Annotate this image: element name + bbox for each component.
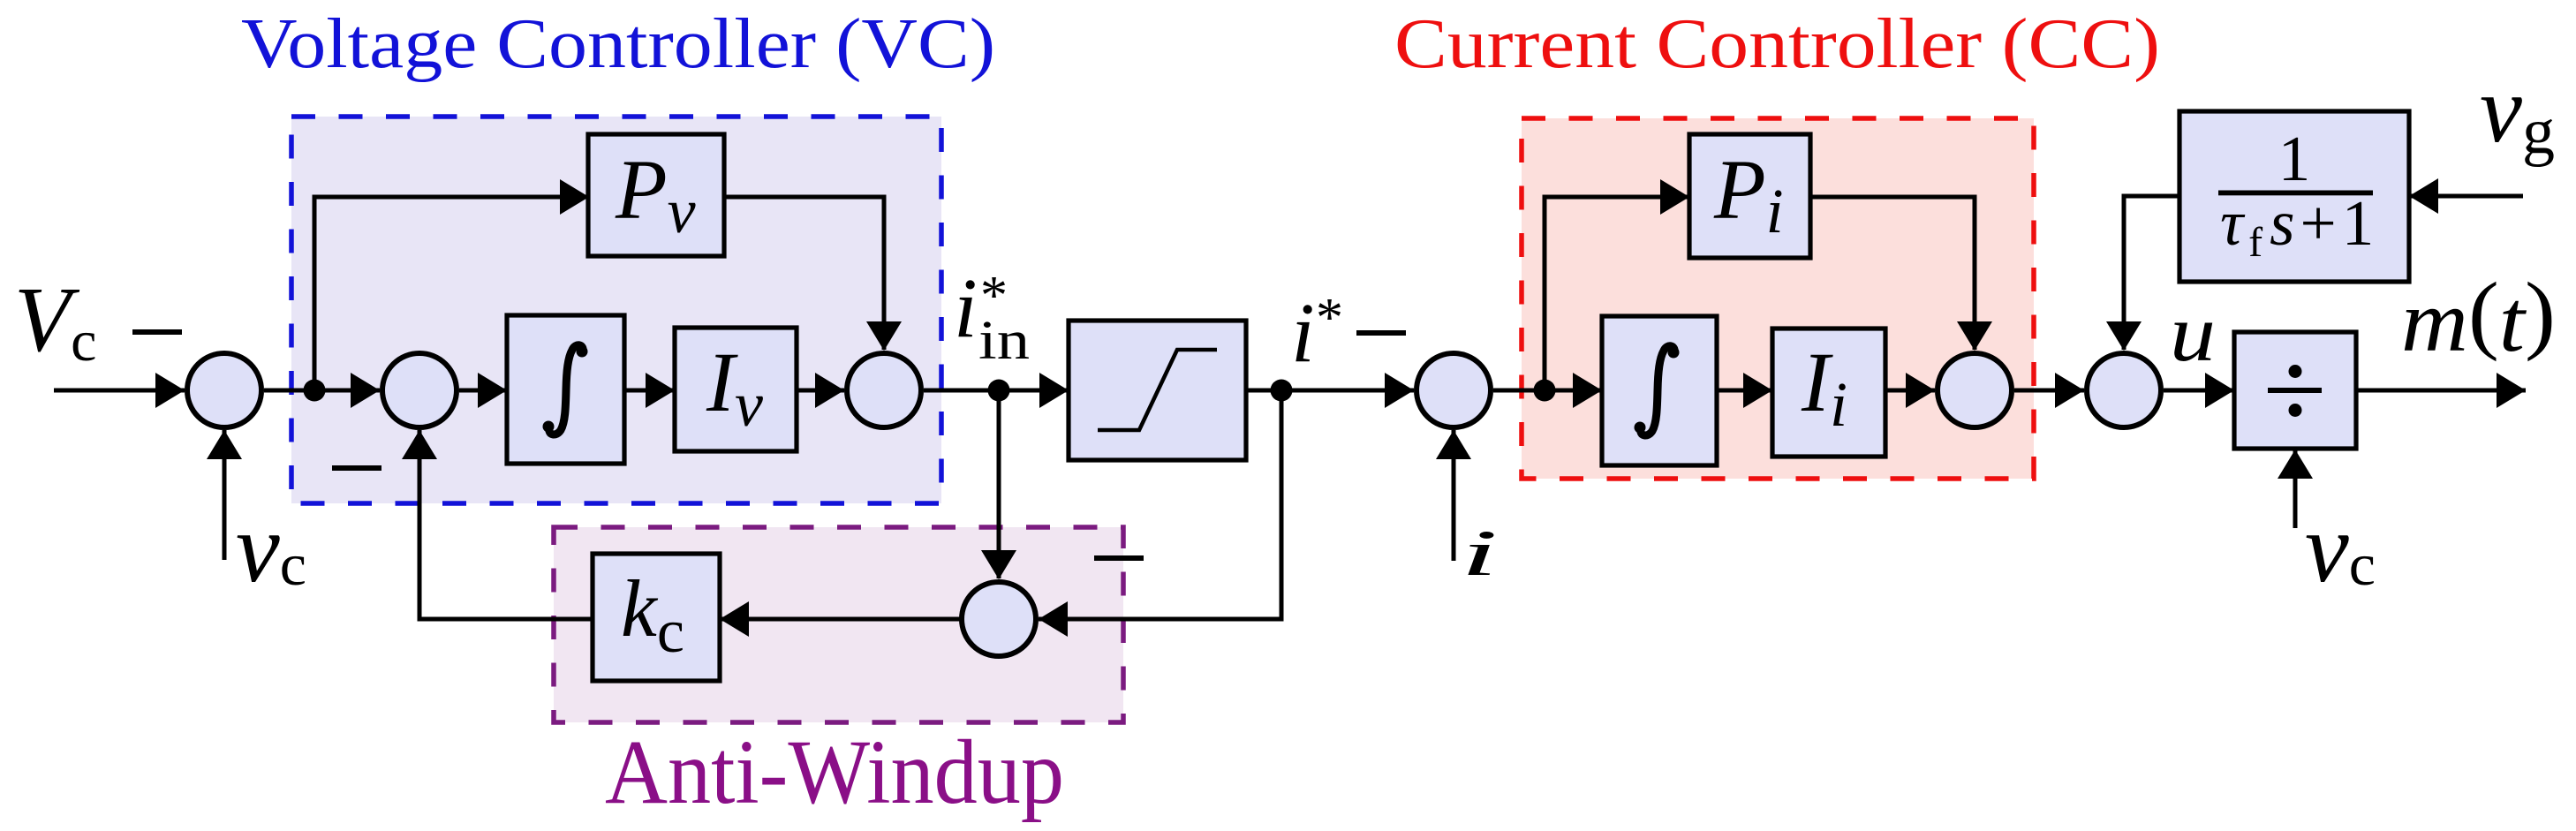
- arrowhead output m(t): [2497, 373, 2526, 408]
- wire: Iv to sum S3: [797, 389, 844, 393]
- sum circle S4 (i* - i): [1416, 353, 1491, 427]
- label integral CC (drawn path): [1641, 346, 1674, 435]
- arrowhead into saturation: [1039, 373, 1069, 408]
- svg-text:Voltage Controller (VC): Voltage Controller (VC): [241, 5, 995, 83]
- wire: node i*in down into anti-windup sum SA: [997, 390, 1001, 578]
- divide symbol bar: [2268, 388, 2322, 393]
- block Iv: [675, 328, 797, 451]
- label integral VC (drawn path): [549, 345, 583, 434]
- region box: Voltage Controller (VC) dashed blue: [291, 117, 941, 503]
- wire: S4 to CC integrator through node B: [1493, 389, 1602, 393]
- wire: S6 to divide block: [2164, 389, 2234, 393]
- divide symbol top dot: [2289, 365, 2302, 378]
- node A after S1: [304, 380, 326, 402]
- wire: S1 to sum S2 through node A: [264, 389, 380, 393]
- block integrator CC: [1602, 316, 1717, 465]
- svg-text:i: i: [954, 261, 978, 355]
- arrowhead Pi into S5: [1957, 321, 1992, 351]
- minus sign at SA top input: [1094, 555, 1144, 561]
- wire: node A up and right to Pv: [314, 197, 589, 390]
- svg-text:1: 1: [2278, 123, 2311, 194]
- node i*: [1271, 380, 1293, 402]
- wire: VC integrator to Iv: [624, 389, 675, 393]
- arrowhead i into S4: [1436, 430, 1471, 459]
- sum circle S6 (u junction): [2087, 353, 2161, 427]
- wire: node i* down and left into SA: [1039, 390, 1281, 619]
- integral CC bottom ball: [1635, 422, 1646, 434]
- minus sign for vc at S1: [132, 329, 182, 335]
- svg-text:Current Controller (CC): Current Controller (CC): [1394, 5, 2160, 83]
- arrowhead vg into filter: [2409, 178, 2438, 214]
- arrowhead into divide block: [2205, 373, 2234, 408]
- node i*in: [988, 380, 1010, 402]
- node B after S4: [1534, 380, 1556, 402]
- arrowhead into SA right: [1039, 601, 1068, 637]
- svg-text:m(t): m(t): [2401, 264, 2556, 370]
- arrowhead vc into S1: [207, 430, 242, 459]
- svg-text:Anti-Windup: Anti-Windup: [605, 721, 1064, 823]
- wire: node B up and right to Pi: [1545, 197, 1689, 390]
- region box: Current Controller (CC) dashed red: [1522, 118, 2034, 479]
- svg-text:τfs+1: τfs+1: [2220, 187, 2379, 266]
- wire: i feedback into S4 from below: [1452, 430, 1456, 561]
- arrowhead kc into S2: [402, 430, 437, 459]
- wire: CC integrator to Ii: [1717, 389, 1772, 393]
- svg-text:u: u: [2170, 288, 2216, 378]
- sum circle SA (anti-windup difference): [962, 582, 1036, 656]
- saturation curve: [1098, 350, 1217, 430]
- arrowhead Pv into S3: [866, 321, 902, 351]
- integral CC top ball: [1668, 347, 1680, 359]
- arrowhead into VC integrator: [478, 373, 507, 408]
- sum circle S2 (VC error with anti-windup): [382, 353, 457, 427]
- sum circle S3 (VC PI output): [847, 353, 921, 427]
- wire: Pv output down into S3: [724, 197, 884, 350]
- svg-text:i: i: [1291, 285, 1315, 380]
- wire: Vc input to sum S1: [54, 389, 185, 393]
- arrowhead into S5: [1906, 373, 1935, 408]
- divide symbol bottom dot: [2289, 404, 2302, 417]
- block divide: [2234, 332, 2356, 449]
- svg-text:*: *: [1316, 288, 1343, 348]
- wire: S3 to saturation block through node i*in: [924, 389, 1069, 393]
- wire: Ii to sum S5: [1885, 389, 1935, 393]
- arrowhead into S3: [815, 373, 844, 408]
- arrowhead into Iv: [646, 373, 675, 408]
- arrowhead into S6: [2055, 373, 2084, 408]
- block saturation: [1069, 321, 1246, 460]
- arrowhead into Pv: [560, 179, 589, 215]
- arrowhead into Ii: [1743, 373, 1772, 408]
- minus sign for i at S4: [1356, 330, 1406, 336]
- wire: Pi output down into S5: [1810, 197, 1975, 350]
- wire: filter output left and down into S6: [2124, 196, 2180, 350]
- block Ii: [1772, 329, 1885, 457]
- wire: vc into divide block from below: [2293, 449, 2298, 528]
- arrowhead into SA top: [981, 550, 1016, 579]
- region box: Anti-Windup dashed purple: [554, 527, 1123, 722]
- arrowhead vc into divide: [2278, 449, 2313, 479]
- wire: SA output left into kc: [720, 617, 962, 622]
- integral VC top ball: [577, 346, 588, 358]
- block kc: [593, 554, 720, 681]
- svg-text:in: in: [978, 311, 1030, 371]
- wire: kc output left and up into S2: [419, 430, 593, 619]
- wire: S2 to integrator VC: [459, 389, 507, 393]
- block Pv: [588, 134, 724, 256]
- block Pi: [1689, 134, 1810, 258]
- wire: vg input into filter block: [2409, 194, 2523, 199]
- wire: saturation to sum S4 through node i*: [1246, 389, 1414, 393]
- block filter 1/(tau_f s+1): [2179, 111, 2409, 282]
- arrowhead filter into S6: [2106, 321, 2142, 351]
- svg-text:i: i: [1461, 517, 1498, 590]
- wire: divide block to m(t) output: [2356, 389, 2526, 393]
- arrowhead into S1: [155, 373, 185, 408]
- integral VC bottom ball: [543, 421, 555, 433]
- sum circle S5 (CC PI output): [1938, 353, 2012, 427]
- minus sign anti-windup at S2: [332, 465, 381, 471]
- wire: vc feedback into S1 from below: [223, 430, 227, 560]
- arrowhead into Pi: [1660, 179, 1689, 215]
- arrowhead into kc: [720, 601, 749, 637]
- block integrator VC: [507, 315, 624, 464]
- arrowhead into S2: [351, 373, 380, 408]
- sum circle S1 (Vc - vc): [187, 353, 261, 427]
- arrowhead into CC integrator: [1573, 373, 1602, 408]
- arrowhead into S4: [1385, 373, 1414, 408]
- wire: S5 to sum S6: [2014, 389, 2084, 393]
- filter fraction bar: [2218, 191, 2373, 196]
